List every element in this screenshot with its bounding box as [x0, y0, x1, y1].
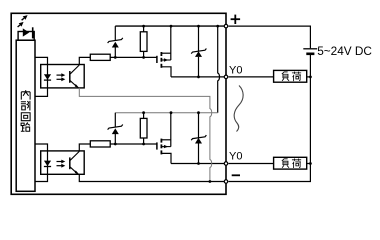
zener diode ZD1b	[108, 113, 123, 144]
label 内	[21, 90, 30, 99]
label minus	[232, 174, 240, 176]
node zener1b-gate	[114, 143, 117, 146]
label 路	[21, 122, 30, 131]
LED light arrow 1	[22, 15, 28, 20]
output wire Y0 ch1	[171, 76, 224, 78]
PC2 light arrows	[57, 160, 66, 168]
node R2a-gate	[142, 56, 145, 59]
frame PLC output unit boundary	[11, 13, 226, 194]
terminal Y0 ch2	[224, 162, 228, 166]
resistor R2b	[140, 113, 147, 144]
optocoupler PC1 box	[41, 65, 84, 88]
node rail-feed2	[216, 25, 219, 28]
battery 5~24V DC	[303, 49, 317, 54]
node rail2-R2b	[142, 111, 145, 114]
internal circuit box 内部回路	[16, 40, 35, 191]
external + wire	[229, 26, 311, 48]
terminal +	[224, 24, 228, 28]
zener diode ZD2a	[191, 26, 206, 77]
terminal minus	[224, 180, 228, 184]
terminal Y0 ch1	[224, 75, 228, 79]
node ZD2b-Y0	[197, 162, 200, 165]
node rail2-drain2	[170, 111, 173, 114]
node emitter1-minus rail	[209, 180, 212, 183]
external Y0 ch1 wire	[229, 76, 311, 78]
PC2 phototransistor	[70, 151, 80, 174]
zener diode ZD2b	[191, 113, 206, 164]
load box 2 負荷	[274, 157, 307, 169]
node R2b-gate	[142, 143, 145, 146]
MOSFET Q2	[157, 113, 171, 164]
resistor R1a	[90, 54, 110, 60]
node load1-battery	[309, 76, 312, 79]
PC1 phototransistor	[70, 65, 80, 88]
+V rail ch2	[115, 112, 217, 114]
label 荷 load1	[292, 72, 301, 81]
wire PC1 collector to R1a	[79, 57, 90, 64]
node zener1a-gate	[114, 56, 117, 59]
LED indicator diode	[23, 28, 30, 36]
load box 1 負荷	[274, 70, 307, 82]
MOSFET Q1	[157, 26, 171, 77]
gate wire ch2	[110, 143, 157, 145]
output wire Y0 ch2	[171, 163, 224, 165]
node rail-R2a	[142, 25, 145, 28]
resistor R1b	[90, 141, 110, 147]
resistor R2a	[140, 26, 147, 57]
node load2-battery	[309, 162, 312, 165]
feed wire +rail to ch2 rail with crossover hop	[218, 26, 220, 113]
node ZD2a-Y0	[197, 76, 200, 79]
label 負 load1	[282, 72, 289, 81]
label 回	[21, 113, 30, 121]
wire PC2 cathode return	[35, 174, 48, 181]
optocoupler PC2 box	[41, 151, 84, 174]
wire PC1 emitter to minus rail with crossover hops	[79, 88, 211, 182]
PC1 LED	[44, 65, 51, 88]
svg-text:5~24V DC: 5~24V DC	[317, 44, 372, 58]
LED light arrow 2	[18, 22, 24, 27]
continuation squiggle	[234, 86, 243, 132]
LED indicator box	[18, 32, 34, 41]
wire opto1 anode	[35, 57, 48, 64]
PC2 LED	[44, 151, 51, 174]
+V rail ch1	[115, 25, 224, 27]
label +	[231, 15, 241, 24]
wire PC2 collector to R1b	[79, 144, 90, 151]
node rail-drain1	[170, 25, 173, 28]
minus rail	[79, 174, 224, 181]
wire opto2 anode	[35, 144, 48, 151]
wire PC1 cathode return	[35, 88, 48, 97]
node rail-ZD2a	[197, 25, 200, 28]
gate wire ch1	[110, 56, 157, 58]
external minus wire / battery column	[229, 55, 311, 182]
external Y0 ch2 wire	[229, 163, 311, 165]
svg-text:Y0: Y0	[229, 150, 242, 162]
svg-text:Y0: Y0	[229, 64, 242, 76]
label 負 load2	[282, 159, 289, 168]
PC1 light arrows	[57, 73, 66, 81]
node rail2-ZD2b	[197, 111, 200, 114]
zener diode ZD1a	[108, 26, 123, 57]
label 部	[21, 101, 30, 111]
label 荷 load2	[292, 159, 301, 168]
